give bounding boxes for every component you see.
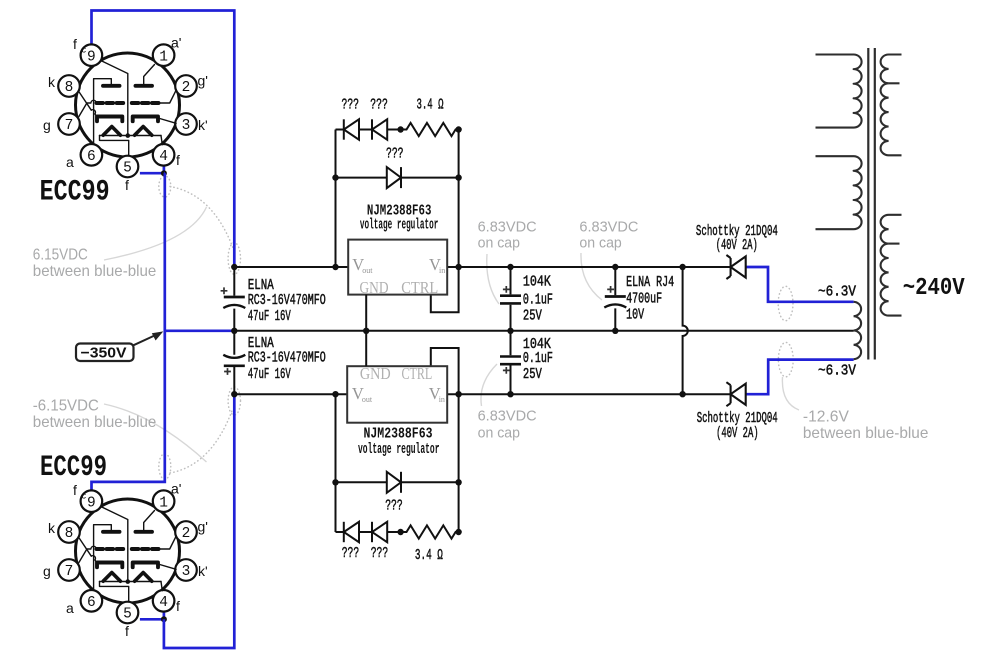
transformer T1 primary winding section A (right top, tapped) [881,55,902,156]
wire: blue link pin 5 to pin 4 junction (bottom tube) [140,611,164,620]
svg-text:c: c [82,491,87,501]
V2 pin label f_c [73,482,87,501]
svg-text:???: ??? [385,497,403,514]
label D7 Schottky 21DQ04 (40V 2A) [696,223,778,254]
svg-text:f: f [125,623,129,639]
wire: top diode row 2 [336,177,459,179]
V1 pin label a&#39; [171,35,181,51]
V1 left grid lead to pin 7 (hops over anode lead) [78,100,96,118]
V2 pin label a [66,600,74,616]
svg-text:47uF 16V: 47uF 16V [248,366,291,383]
V2 pin 3 [175,559,197,581]
wire: capacitor column stubs (top ELNA cap) [233,267,235,331]
svg-text:RC3-16V470MFO: RC3-16V470MFO [248,292,326,309]
label ??? below D6 [371,545,389,562]
junction: blue/cap/top bus [231,264,237,270]
V1 pin label k&#39; [198,117,208,133]
svg-text:on cap: on cap [478,424,520,441]
dotted measure oval on heater-mid blue wire (top tube) [159,176,171,197]
wire: blue fc loop from top tube pin 9 over the top to capacitor column [92,11,235,268]
svg-text:-12.6V: -12.6V [803,408,849,425]
V1 pin 4 [153,144,175,166]
svg-text:out: out [362,266,373,275]
V2 pin label g [43,563,51,579]
label V1 ECC99 [40,176,110,210]
svg-text:between blue-blue: between blue-blue [803,425,929,442]
V1 pin 1 [153,44,175,66]
svg-text:on cap: on cap [579,234,621,251]
V2 pin 1 [153,490,175,512]
svg-text:???: ??? [342,545,360,562]
svg-text:7: 7 [65,118,74,134]
transformer T1 6.3V secondary winding (left bottom, center-tapped) [854,302,862,359]
svg-text:g: g [43,563,51,579]
svg-text:g': g' [198,73,208,89]
svg-text:RC3-16V470MFO: RC3-16V470MFO [248,350,326,367]
svg-text:6: 6 [87,595,96,611]
leader curve 6.83VDC (right, to ELNA RJ4 +) [581,253,602,300]
V1 left cathode and lead to pin 8 (crossing) [79,92,123,122]
svg-text:a': a' [171,481,181,497]
polarity + of C3 [503,286,510,293]
capacitor C4 104K 0.1uF 25V (bottom) [500,357,521,365]
svg-text:3: 3 [182,564,191,580]
junction: pins 4-5 tie point (top tube) [161,170,167,176]
label ??? above D2 [370,97,388,114]
label ??? above D3 [386,145,404,162]
U2 pin label V_in [429,384,445,404]
svg-text:6.83VDC: 6.83VDC [478,218,537,235]
svg-text:1: 1 [159,49,168,65]
junction: right vertical top [679,264,685,270]
V2 left grid (dashed) [97,547,124,551]
label C5: ELNA RJ4 / 4700uF / 10V [626,274,674,323]
diode D3 ??? (middle row, cathode right) [387,167,401,188]
svg-text:k: k [48,520,56,536]
svg-text:between blue-blue: between blue-blue [33,414,157,431]
wire: 104K bottom cap stubs [510,331,512,394]
svg-text:out: out [362,395,373,404]
svg-text:k: k [48,74,56,90]
wire: ELNA RJ4 stubs [614,267,616,331]
V1 heater lead to pin 5 [100,136,129,156]
junction: V_in node (top) [455,264,461,270]
svg-text:0.1uF: 0.1uF [523,292,553,309]
wire: bottom diode row (outer) [336,531,404,533]
label ??? below D5 [342,545,360,562]
capacitor C5 ELNA RJ4 4700uF 10V [604,297,626,308]
wire: bottom diode network right leg + CTRL loop [431,348,459,532]
junction: C5 top [612,264,618,270]
svg-text:6.83VDC: 6.83VDC [478,407,537,424]
V1 pin label a [66,154,74,170]
dotted measure arc bottom (blue to blue) [170,408,233,473]
junction: pins 4-5 tie point (bottom tube) [161,616,167,622]
svg-text:???: ??? [386,145,404,162]
resistor R1 3.4 ohm [404,123,459,136]
resistor R2 3.4 ohm [404,525,459,538]
svg-text:CTRL: CTRL [401,278,438,297]
wire: blue heater-mid column down to bottom tube pin 9 [92,173,165,490]
vacuum tube V2 (ECC99 dual triode) envelope [76,499,180,603]
junction: cap midpoint on center bus [231,328,237,334]
V1 pin label k [48,74,56,90]
capacitor C1 ELNA RC3-16V470MFO 47uF 16V (top) [223,297,245,308]
wire: capacitor column stubs (bottom ELNA cap) [233,331,235,394]
svg-text:3.4 Ω: 3.4 Ω [415,547,443,564]
V2 left anode plate and lead to pin 6 [94,525,120,591]
svg-text:a': a' [171,35,181,51]
wire: 104K top cap stubs [510,267,512,331]
svg-text:~240V: ~240V [903,275,966,302]
label ??? above D1 [342,97,360,114]
wire: bottom diode row (inner) [336,481,459,483]
junction: D2/resistor node [397,126,403,132]
V1 pin label g&#39; [198,73,208,89]
V2 pin 4 [153,590,175,612]
gray note -6.15VDC between blue-blue [33,398,157,432]
svg-text:3.4 Ω: 3.4 Ω [417,97,444,114]
svg-text:a: a [66,154,74,170]
svg-text:5: 5 [123,161,132,177]
label C1: ELNA / RC3-16V470MFO / 47uF 16V [248,277,326,325]
V1 left anode plate and lead to pin 6 [94,79,120,145]
label box -350V [76,344,134,362]
gray note 6.83VDC on cap (bottom) [478,407,537,441]
V2 pin 2 [175,521,197,543]
svg-text:f: f [73,36,77,52]
gray note 6.83VDC on cap (right) [579,218,638,251]
V2 pin label f (pin 5) [125,623,129,639]
svg-text:4: 4 [159,149,168,165]
diode D4 ??? (cathode right) [387,472,401,493]
svg-text:6.83VDC: 6.83VDC [579,218,638,235]
svg-text:???: ??? [370,97,388,114]
wire: U2 GND to center bus [365,331,367,366]
svg-text:−350V: −350V [81,345,127,362]
svg-text:???: ??? [371,545,389,562]
label U1 NJM2388F63 voltage regulator [360,203,439,234]
diode D2 ??? (top row, cathode left) [372,119,387,139]
dotted measure oval on top ~6.3V blue wire [778,286,793,320]
svg-text:8: 8 [65,526,74,542]
wire: right vertical joining both rails (hops center bus) [683,267,688,394]
dotted measure arc top (blue to blue) [170,187,233,249]
diode D1 ??? (top row, cathode left) [344,119,359,139]
diode D7 Schottky 21DQ04 (top) [726,255,745,279]
junction: row2 right [455,174,461,180]
V1 right grid (dashed) [132,101,159,105]
polarity + of C5 [607,286,614,293]
svg-text:6: 6 [87,149,96,165]
V2 pin 5 [117,602,139,624]
junction: C4 bottom [507,391,513,397]
V2 pin label k&#39; [198,563,208,579]
leader curve 6.83VDC (bottom, to lower 104K cap +) [481,364,497,406]
junction: bottom row2 right [455,479,461,485]
V2 pin 6 [81,590,103,612]
label C4: 104K / 0.1uF / 25V [523,336,553,383]
junction: blue/cap/bottom bus [231,391,237,397]
wire: top diode network left leg [335,130,337,268]
svg-text:(40V 2A): (40V 2A) [716,425,759,442]
arrow from -350V box to center bus node [134,331,164,345]
svg-text:a: a [66,600,74,616]
label ~6.3V (bottom secondary) [818,363,856,379]
junction: U1 GND on center bus [363,328,369,334]
V2 heater lead to pin 5 [100,582,129,602]
label V2 ECC99 [40,451,107,485]
transformer T1 core [868,48,875,360]
svg-text:8: 8 [65,80,74,96]
svg-text:4: 4 [159,595,168,611]
leader curve -12.6V note [782,377,799,410]
vacuum tube V1 (ECC99 dual triode) envelope [76,53,180,157]
V2 internal shield / filament center line to pin 9 [101,506,131,583]
leader curve 6.83VDC (left, to 104K cap +) [487,254,499,304]
V1 right grid lead to pin 2 [159,90,177,103]
annotation leader curve for -6.15VDC note [104,404,207,462]
junction: V_in node (bottom) [455,391,461,397]
svg-text:1: 1 [159,495,168,511]
svg-text:g: g [43,117,51,133]
polarity + of C4 [503,367,510,374]
V1 pin label g [43,117,51,133]
V2 pin label a&#39; [171,481,181,497]
svg-text:~6.3V: ~6.3V [818,284,856,300]
junction: C3 bottom on center bus [507,328,513,334]
capacitor C2 ELNA RC3-16V470MFO 47uF 16V (bottom, reversed) [223,355,245,366]
wire: blue link pin 5 to pin 4 junction (top tube) [140,165,164,174]
label ??? below D4 [385,497,403,514]
V1 heater lead to pin 4 [161,136,162,145]
gray note -12.6V between blue-blue [803,408,929,442]
wire: top diode network right leg + CTRL loop [431,130,459,313]
junction: C3 top [507,264,513,270]
svg-text:between blue-blue: between blue-blue [33,263,157,280]
gray note 6.83VDC on cap (left) [478,218,537,251]
wire: blue ~6.3V secondary lead (top) [746,267,854,302]
V2 pin 9 [81,490,103,512]
diode D5 ??? (cathode left) [344,522,359,542]
svg-text:~6.3V: ~6.3V [818,363,856,379]
transformer T1 primary winding section B (right bottom, tapped) [881,215,902,316]
wire: center ground bus to transformer center tap [234,330,853,332]
V1 left grid (dashed) [97,101,124,105]
label C2: ELNA / RC3-16V470MFO / 47uF 16V [248,335,326,383]
V1 internal shield / filament center line to pin 9 [101,60,131,138]
dotted measure oval on blue wire above bottom tube pin 9 [159,454,171,480]
U1 pin label CTRL [401,278,438,297]
svg-text:f: f [125,177,129,193]
V1 pin 6 [81,144,103,166]
gray note 6.15VDC between blue-blue [33,247,157,281]
U1 pin label GND [360,278,389,297]
junction: V_out node (bottom) [332,391,338,397]
polarity + of C2 [224,368,231,375]
dotted measure oval on bottom ~6.3V blue wire [778,342,793,376]
V2 right grid lead to pin 2 [159,536,177,549]
wire: bottom diode network left leg [335,394,337,532]
svg-text:7: 7 [65,564,74,580]
U2 pin label V_out [352,384,373,404]
label D8 Schottky 21DQ04 (40V 2A) [697,410,778,442]
regulator U2 NJM2388F63 body [347,366,447,423]
svg-text:k': k' [198,117,208,133]
V2 left cathode and lead to pin 8 (crossing) [79,538,123,568]
V1 pin 9 [81,44,103,66]
polarity + of C1 [221,287,228,294]
V2 heater lead to pin 4 [161,582,162,591]
wire: blue ~6.3V secondary lead (bottom) [746,360,854,395]
wire: blue tap to -350V node on center bus [165,329,235,332]
svg-text:in: in [439,266,445,275]
svg-text:c: c [82,45,87,55]
svg-text:104K: 104K [523,274,551,291]
label ~240V primary voltage [903,275,966,302]
V2 right grid (dashed) [132,547,159,551]
V1 pin 8 [58,75,80,97]
svg-text:10V: 10V [626,307,644,324]
label C3: 104K / 0.1uF / 25V [523,274,553,325]
label R1 value 3.4 ohm [417,97,444,114]
svg-text:-6.15VDC: -6.15VDC [33,398,99,415]
svg-text:on cap: on cap [478,234,520,251]
svg-text:ECC99: ECC99 [40,176,110,210]
svg-text:GND: GND [360,278,389,297]
svg-text:25V: 25V [523,366,542,383]
wire: top V_in bus [234,266,730,268]
junction: R2 right node [455,529,461,535]
V1 heater filaments [100,127,162,136]
svg-text:GND: GND [360,364,391,383]
regulator U1 NJM2388F63 body [348,240,447,295]
capacitor C3 104K 0.1uF 25V (top) [500,296,521,304]
svg-text:25V: 25V [523,308,542,325]
svg-text:9: 9 [87,495,96,511]
svg-text:f: f [176,598,180,614]
transformer T1 secondary winding section 2 (left middle) [816,156,862,229]
svg-text:4700uF: 4700uF [626,290,662,307]
wire: U1 GND to center bus [365,295,367,331]
V2 heater filaments [100,573,162,582]
junction: D6/resistor node [397,529,403,535]
svg-text:0.1uF: 0.1uF [523,350,553,367]
svg-text:9: 9 [87,49,96,65]
diode D8 Schottky 21DQ04 (bottom) [726,382,745,406]
svg-text:2: 2 [182,526,191,542]
junction: right vertical bottom [679,391,685,397]
V1 pin 5 [117,156,139,178]
V2 right anode plate and lead to pin 1 [136,511,155,532]
label U2 NJM2388F63 voltage regulator [358,426,440,458]
U2 pin label GND [360,364,391,383]
svg-text:(40V 2A): (40V 2A) [716,237,758,254]
svg-text:???: ??? [342,97,360,114]
V2 right cathode and lead to pin 3 [133,563,176,570]
svg-text:g': g' [198,519,208,535]
V2 left grid lead to pin 7 (hops over anode lead) [78,546,96,564]
svg-text:3: 3 [182,118,191,134]
label R2 value 3.4 ohm [415,547,443,564]
svg-text:in: in [439,395,445,404]
svg-text:ECC99: ECC99 [40,451,107,485]
svg-text:47uF 16V: 47uF 16V [248,308,291,325]
svg-text:ELNA RJ4: ELNA RJ4 [626,274,674,291]
label ~6.3V (top secondary) [818,284,856,300]
annotation leader curve for 6.15VDC note [104,207,207,260]
svg-text:2: 2 [182,80,191,96]
wire: bottom V_in bus [234,393,730,395]
V2 pin 8 [58,521,80,543]
V1 right cathode and lead to pin 3 [133,117,176,124]
svg-text:f: f [176,152,180,168]
wire: top diode row 1 [336,129,404,131]
V1 pin label f_c [73,36,87,55]
U1 pin label V_out [352,255,373,275]
junction: bottom row2 left [332,479,338,485]
dotted measure oval on fc blue wire above top capacitor [228,243,240,275]
svg-text:5: 5 [123,607,132,623]
V2 pin label g&#39; [198,519,208,535]
V2 pin 7 [58,559,80,581]
svg-text:6.15VDC: 6.15VDC [33,247,88,264]
U1 pin label V_in [429,255,445,275]
svg-text:voltage regulator: voltage regulator [360,217,439,234]
svg-text:voltage regulator: voltage regulator [358,441,440,458]
V1 right anode plate and lead to pin 1 [136,65,155,86]
svg-text:k': k' [198,563,208,579]
V1 pin 3 [175,113,197,135]
U2 pin label CTRL [402,364,433,383]
dotted measure oval on blue wire below bottom capacitor [228,387,240,415]
transformer T1 secondary winding section 1 (left top) [816,55,862,128]
svg-text:CTRL: CTRL [402,364,433,383]
V2 pin label f (pin 4) [176,598,180,614]
diode D6 ??? (cathode left) [372,522,387,542]
junction: row2 left [332,174,338,180]
V1 pin label f (pin 4) [176,152,180,168]
V1 pin 7 [58,113,80,135]
V1 pin 2 [175,75,197,97]
junction: V_out node (top) [332,264,338,270]
junction: R1 right node [455,126,461,132]
junction: C5 bottom on center bus [612,328,618,334]
V2 pin label k [48,520,56,536]
wire: blue from bottom tube heater down and around to bottom capacitor [164,394,234,648]
V1 pin label f (pin 5) [125,177,129,193]
